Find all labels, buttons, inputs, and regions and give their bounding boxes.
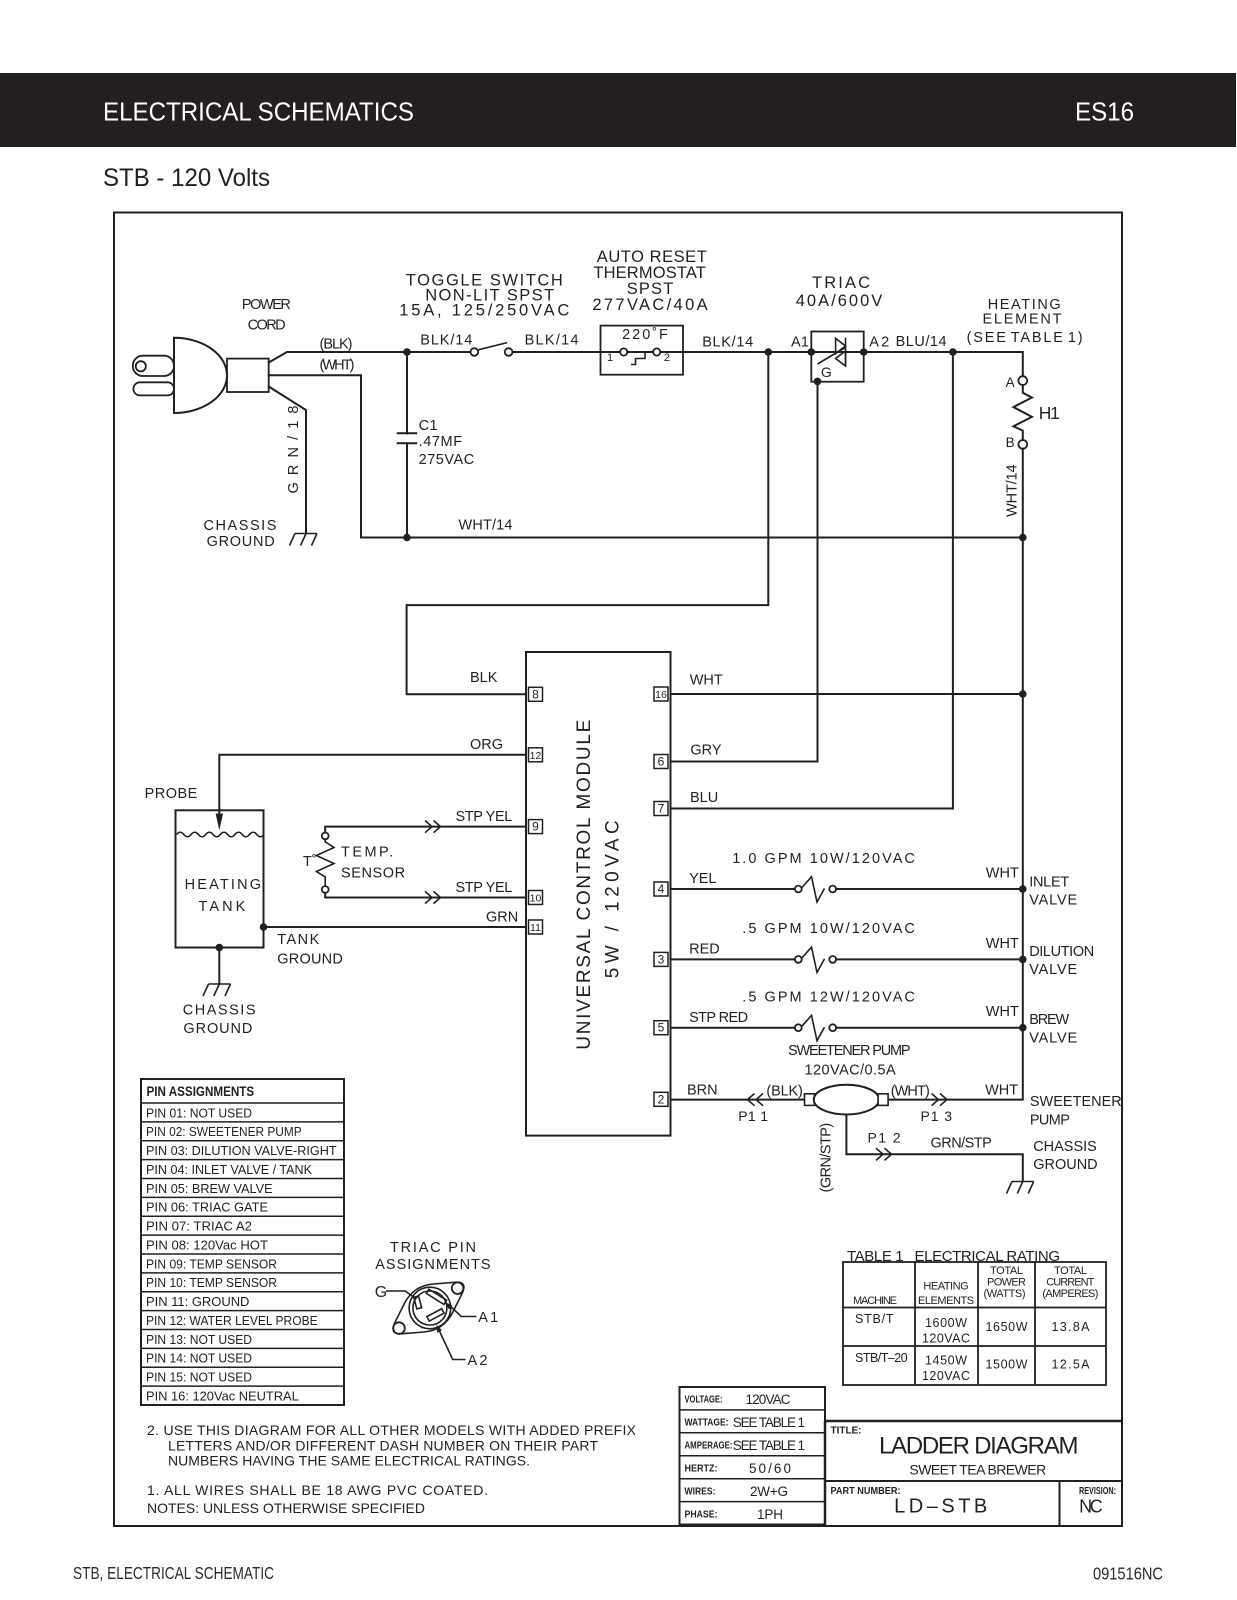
svg-text:2. USE THIS DIAGRAM FOR ALL OT: 2. USE THIS DIAGRAM FOR ALL OTHER MODELS… xyxy=(147,1422,637,1438)
capacitor C1 .47MF 275VAC xyxy=(398,352,475,538)
svg-text:GRN/STP: GRN/STP xyxy=(931,1136,992,1152)
svg-text:TRIAC: TRIAC xyxy=(812,274,870,292)
svg-text:1450W: 1450W xyxy=(925,1354,967,1368)
svg-text:PROBE: PROBE xyxy=(145,786,198,802)
wire BLK lead from plug xyxy=(269,352,471,363)
svg-text:ORG: ORG xyxy=(470,737,503,753)
svg-text:PIN 09: TEMP SENSOR: PIN 09: TEMP SENSOR xyxy=(146,1256,277,1271)
svg-text:A1: A1 xyxy=(791,334,809,350)
svg-text:WHT/14: WHT/14 xyxy=(1004,464,1020,516)
svg-text:ELECTRICAL SCHEMATICS: ELECTRICAL SCHEMATICS xyxy=(103,97,414,127)
svg-text:1500W: 1500W xyxy=(986,1357,1028,1371)
brew valve V3 row xyxy=(671,990,1078,1047)
svg-text:TOTAL: TOTAL xyxy=(990,1265,1023,1277)
auto reset thermostat TS1 xyxy=(592,248,707,375)
svg-text:P1 3: P1 3 xyxy=(921,1108,953,1124)
svg-text:(WATTS): (WATTS) xyxy=(984,1288,1026,1300)
svg-text:POWER: POWER xyxy=(987,1277,1026,1289)
sweetener pump M1 xyxy=(788,1043,911,1079)
node tank bottom junction xyxy=(216,944,224,952)
pin 2 (module right) xyxy=(654,1092,668,1106)
wire STP YEL sensor to pin 9 xyxy=(325,827,526,833)
svg-text:PART NUMBER:: PART NUMBER: xyxy=(831,1485,901,1497)
chassis ground (power cord) xyxy=(204,518,318,550)
svg-text:WHT: WHT xyxy=(690,673,723,689)
svg-text:9: 9 xyxy=(532,820,539,834)
svg-text:YEL: YEL xyxy=(689,871,716,887)
svg-text:1.0 GPM 10W/120VAC: 1.0 GPM 10W/120VAC xyxy=(732,851,915,867)
connector chevrons P1 2 xyxy=(876,1148,892,1160)
svg-text:PIN 02: SWEETENER PUMP: PIN 02: SWEETENER PUMP xyxy=(146,1124,302,1139)
svg-text:BREW: BREW xyxy=(1029,1012,1069,1028)
svg-text:HEATING: HEATING xyxy=(923,1281,968,1293)
svg-text:PIN 07: TRIAC A2: PIN 07: TRIAC A2 xyxy=(146,1219,252,1234)
svg-text:SWEETENER: SWEETENER xyxy=(1030,1094,1122,1110)
svg-text:TRIAC PIN: TRIAC PIN xyxy=(390,1240,476,1256)
svg-text:3: 3 xyxy=(658,952,665,966)
pin 4 (module right) xyxy=(654,882,668,896)
svg-text:SEE TABLE 1: SEE TABLE 1 xyxy=(733,1415,805,1430)
connector chevrons on pin 10 wire xyxy=(425,891,441,903)
wire WHT lead from plug xyxy=(269,375,361,537)
svg-text:PUMP: PUMP xyxy=(1030,1113,1070,1129)
pin 10 (module left) xyxy=(529,891,543,905)
svg-text:PIN 16: 120Vac NEUTRAL: PIN 16: 120Vac NEUTRAL xyxy=(146,1388,299,1403)
node A2 junction xyxy=(860,348,868,356)
schematic border frame xyxy=(114,213,1122,1527)
node junction WHT at C1 xyxy=(403,534,411,542)
svg-text:.47MF: .47MF xyxy=(419,434,463,450)
wire BLK thermostat to heating element corner xyxy=(660,352,1022,376)
op-amp/controller U1 universal control module xyxy=(526,652,671,1136)
svg-text:VALVE: VALVE xyxy=(1029,892,1077,908)
svg-text:(GRN/STP): (GRN/STP) xyxy=(819,1123,835,1193)
svg-text:(SEE TABLE 1): (SEE TABLE 1) xyxy=(967,330,1083,346)
svg-text:STP RED: STP RED xyxy=(689,1010,748,1026)
title block main xyxy=(825,1421,1122,1526)
svg-text:PIN 13: NOT USED: PIN 13: NOT USED xyxy=(146,1332,252,1347)
svg-text:PIN 10: TEMP SENSOR: PIN 10: TEMP SENSOR xyxy=(146,1275,277,1290)
svg-text:STB/T: STB/T xyxy=(855,1312,894,1326)
svg-text:WHT: WHT xyxy=(986,936,1019,952)
svg-text:091516NC: 091516NC xyxy=(1093,1564,1163,1584)
svg-text:2W+G: 2W+G xyxy=(750,1484,788,1499)
svg-text:G: G xyxy=(375,1284,387,1301)
svg-text:AMPERAGE:: AMPERAGE: xyxy=(685,1440,733,1452)
connector chevrons P1 3 xyxy=(932,1094,948,1106)
svg-text:LD–STB: LD–STB xyxy=(894,1495,987,1517)
svg-text:STB, ELECTRICAL SCHEMATIC: STB, ELECTRICAL SCHEMATIC xyxy=(73,1563,274,1583)
svg-text:PIN ASSIGNMENTS: PIN ASSIGNMENTS xyxy=(147,1084,255,1099)
svg-text:13.8A: 13.8A xyxy=(1052,1320,1091,1334)
wire BRN pin 2 to pump xyxy=(671,1099,805,1101)
svg-text:INLET: INLET xyxy=(1029,874,1069,890)
power cord plug P1 xyxy=(133,297,291,413)
svg-text:16: 16 xyxy=(655,689,667,701)
svg-text:GRN: GRN xyxy=(486,910,518,926)
pin 11 (module left) xyxy=(529,920,543,934)
svg-text:CORD: CORD xyxy=(248,318,286,334)
svg-text:A: A xyxy=(1006,375,1015,390)
svg-text:ASSIGNMENTS: ASSIGNMENTS xyxy=(375,1257,490,1273)
pin 6 (module right) xyxy=(654,755,668,769)
wire WHT/14 return rail xyxy=(361,537,1023,539)
svg-text:11: 11 xyxy=(530,922,541,934)
pin 16 (module right) xyxy=(654,687,668,701)
node junction WHT rail pin16 xyxy=(1019,690,1027,698)
svg-text:PIN 04: INLET VALVE / TANK: PIN 04: INLET VALVE / TANK xyxy=(146,1162,312,1177)
svg-text:277VAC/40A: 277VAC/40A xyxy=(592,296,707,314)
svg-text:VALVE: VALVE xyxy=(1029,1031,1077,1047)
svg-text:(WHT): (WHT) xyxy=(320,357,355,373)
svg-text:120VAC: 120VAC xyxy=(922,1369,970,1383)
wire tank to chassis ground xyxy=(218,948,220,985)
svg-text:PIN 06: TRIAC GATE: PIN 06: TRIAC GATE xyxy=(146,1200,268,1215)
svg-text:UNIVERSAL CONTROL MODULE: UNIVERSAL CONTROL MODULE xyxy=(574,720,595,1050)
svg-text:PIN 15: NOT USED: PIN 15: NOT USED xyxy=(146,1370,252,1385)
svg-text:120VAC: 120VAC xyxy=(922,1332,970,1346)
table 1 electrical rating xyxy=(843,1248,1106,1385)
svg-text:STP YEL: STP YEL xyxy=(456,809,513,825)
svg-text:1. ALL WIRES SHALL BE 18 AWG P: 1. ALL WIRES SHALL BE 18 AWG PVC COATED. xyxy=(147,1482,488,1498)
svg-text:5: 5 xyxy=(658,1021,665,1035)
svg-text:50/60: 50/60 xyxy=(749,1461,791,1476)
probe arrow into tank xyxy=(216,814,223,831)
chassis ground (tank) xyxy=(183,984,256,1037)
svg-text:SEE TABLE 1: SEE TABLE 1 xyxy=(733,1438,805,1453)
svg-text:POWER: POWER xyxy=(242,297,291,313)
svg-text:SWEET TEA BREWER: SWEET TEA BREWER xyxy=(909,1461,1046,1477)
svg-text:7: 7 xyxy=(658,802,665,816)
svg-text:(BLK): (BLK) xyxy=(320,337,353,353)
heating tank xyxy=(176,810,265,947)
svg-text:WATTAGE:: WATTAGE: xyxy=(685,1417,729,1429)
temp sensor T xyxy=(303,833,405,893)
node tank ground junction xyxy=(260,923,268,931)
svg-text:SENSOR: SENSOR xyxy=(341,866,405,882)
page header black bar xyxy=(0,73,1236,147)
svg-text:CURRENT: CURRENT xyxy=(1046,1277,1094,1289)
svg-text:(WHT): (WHT) xyxy=(891,1084,930,1100)
wire BLK drop to module pin 8 xyxy=(407,352,769,694)
svg-text:STP YEL: STP YEL xyxy=(456,880,513,896)
triac pin assignments diagram xyxy=(375,1240,499,1369)
svg-text:NC: NC xyxy=(1079,1496,1103,1516)
svg-text:REVISION:: REVISION: xyxy=(1079,1485,1116,1497)
notes text block xyxy=(147,1422,637,1516)
svg-text:C1: C1 xyxy=(419,418,438,434)
svg-text:2: 2 xyxy=(658,1092,665,1106)
svg-text:RED: RED xyxy=(689,942,720,958)
svg-text:LETTERS AND/OR DIFFERENT DASH: LETTERS AND/OR DIFFERENT DASH NUMBER ON … xyxy=(168,1437,598,1453)
svg-text:220˚F: 220˚F xyxy=(622,327,668,343)
svg-text:HERTZ:: HERTZ: xyxy=(685,1463,718,1475)
svg-text:1600W: 1600W xyxy=(925,1316,967,1330)
svg-text:GROUND: GROUND xyxy=(207,534,275,550)
svg-text:1650W: 1650W xyxy=(986,1320,1028,1334)
inlet valve V1 row xyxy=(671,851,1078,909)
svg-text:BRN: BRN xyxy=(687,1083,718,1099)
svg-text:PIN 08: 120Vac HOT: PIN 08: 120Vac HOT xyxy=(146,1237,268,1252)
svg-text:VOLTAGE:: VOLTAGE: xyxy=(685,1394,723,1406)
svg-text:TANK: TANK xyxy=(277,932,319,948)
pin 3 (module right) xyxy=(654,952,668,966)
svg-text:BLU: BLU xyxy=(690,790,718,806)
pin 8 (module left) xyxy=(529,687,543,701)
svg-text:BLK/14: BLK/14 xyxy=(420,333,472,349)
title block spec table xyxy=(680,1387,826,1525)
svg-text:BLK/14: BLK/14 xyxy=(525,333,579,349)
svg-text:BLU/14: BLU/14 xyxy=(896,334,947,350)
svg-text:NOTES: UNLESS OTHERWISE SPECIF: NOTES: UNLESS OTHERWISE SPECIFIED xyxy=(147,1500,425,1516)
connector chevrons on pin 9 wire xyxy=(425,821,441,833)
wire GRN lead from plug xyxy=(269,387,306,534)
svg-text:B: B xyxy=(1006,435,1015,450)
svg-text:GRY: GRY xyxy=(690,743,721,759)
svg-text:H1: H1 xyxy=(1039,403,1060,423)
svg-text:WHT: WHT xyxy=(986,1004,1019,1020)
triac Q1 40A/600V xyxy=(796,274,883,382)
svg-text:P1 2: P1 2 xyxy=(868,1130,901,1146)
svg-text:PIN 05: BREW VALVE: PIN 05: BREW VALVE xyxy=(146,1181,273,1196)
svg-text:120VAC: 120VAC xyxy=(746,1392,791,1407)
wire H1 B terminal down the right rail to sweetener pump xyxy=(888,449,1023,1100)
pin 9 (module left) xyxy=(529,820,543,834)
svg-text:PIN 12: WATER LEVEL PROBE: PIN 12: WATER LEVEL PROBE xyxy=(146,1313,318,1328)
pump body xyxy=(805,1085,889,1115)
svg-text:4: 4 xyxy=(658,882,665,896)
svg-text:NUMBERS HAVING THE SAME ELECTR: NUMBERS HAVING THE SAME ELECTRICAL RATIN… xyxy=(168,1453,530,1469)
svg-text:WHT/14: WHT/14 xyxy=(459,518,513,534)
dilution valve V2 row xyxy=(671,921,1095,978)
svg-text:TOTAL: TOTAL xyxy=(1054,1265,1087,1277)
svg-text:WHT: WHT xyxy=(986,865,1019,881)
svg-text:BLK/14: BLK/14 xyxy=(702,334,753,350)
heating element H1 xyxy=(967,297,1083,450)
svg-text:PIN 14: NOT USED: PIN 14: NOT USED xyxy=(146,1351,252,1366)
wire BLK switch to thermostat xyxy=(513,351,621,353)
svg-text:120VAC/0.5A: 120VAC/0.5A xyxy=(805,1063,897,1079)
svg-text:STB - 120 Volts: STB - 120 Volts xyxy=(103,164,270,192)
pin 12 (module left) xyxy=(529,748,543,762)
svg-text:DILUTION: DILUTION xyxy=(1029,944,1094,960)
wire GRN tank to pin 11 xyxy=(264,926,527,928)
svg-text:WIRES:: WIRES: xyxy=(685,1485,716,1497)
svg-text:(AMPERES): (AMPERES) xyxy=(1042,1288,1098,1300)
svg-text:STB/T–20: STB/T–20 xyxy=(855,1351,908,1365)
node junction BLU riser xyxy=(949,348,957,356)
toggle switch S1 xyxy=(399,272,569,356)
svg-text:275VAC: 275VAC xyxy=(419,452,475,468)
svg-text:1: 1 xyxy=(607,352,613,364)
svg-text:LADDER DIAGRAM: LADDER DIAGRAM xyxy=(879,1433,1078,1460)
chassis ground (sweetener) xyxy=(1007,1139,1098,1194)
svg-text:PIN 01: NOT USED: PIN 01: NOT USED xyxy=(146,1105,252,1120)
pin assignments table xyxy=(141,1079,344,1405)
connector chevrons P1 1 xyxy=(748,1094,764,1106)
pin 5 (module right) xyxy=(654,1021,668,1035)
wire GRN/STP pump to chassis ground xyxy=(846,1115,1022,1182)
svg-text:1PH: 1PH xyxy=(757,1507,783,1522)
svg-text:PHASE:: PHASE: xyxy=(685,1508,718,1520)
wire STP YEL sensor to pin 10 xyxy=(325,893,526,898)
svg-text:12: 12 xyxy=(530,750,542,762)
svg-text:10: 10 xyxy=(530,893,542,905)
wire BLU pin 7 to A2 node xyxy=(671,352,953,809)
svg-text:(BLK): (BLK) xyxy=(766,1084,803,1100)
svg-text:BLK: BLK xyxy=(470,670,498,686)
svg-text:VALVE: VALVE xyxy=(1029,962,1077,978)
svg-text:PIN 11: GROUND: PIN 11: GROUND xyxy=(146,1294,249,1309)
svg-text:2: 2 xyxy=(664,352,670,364)
svg-text:MACHINE: MACHINE xyxy=(853,1295,897,1307)
svg-text:SWEETENER PUMP: SWEETENER PUMP xyxy=(788,1043,911,1059)
svg-text:GROUND: GROUND xyxy=(277,952,343,968)
node gate junction at triac box bottom xyxy=(814,378,822,386)
svg-text:T˚: T˚ xyxy=(303,854,317,870)
svg-text:TITLE:: TITLE: xyxy=(831,1425,862,1437)
svg-text:WHT: WHT xyxy=(985,1083,1018,1099)
svg-text:GROUND: GROUND xyxy=(183,1021,252,1037)
svg-text:CHASSIS: CHASSIS xyxy=(1033,1139,1097,1155)
svg-text:ELEMENT: ELEMENT xyxy=(983,311,1062,327)
wire WHT pin 16 to rail xyxy=(671,693,1023,695)
wire ORG pin 12 to probe xyxy=(219,755,526,814)
node A1 junction xyxy=(808,348,816,356)
svg-text:6: 6 xyxy=(658,755,665,769)
node junction WHT rail at H1 xyxy=(1019,534,1027,542)
svg-text:ELEMENTS: ELEMENTS xyxy=(918,1295,974,1307)
node junction BLK at C1 xyxy=(403,348,411,356)
svg-text:ES16: ES16 xyxy=(1075,97,1134,127)
svg-text:TANK: TANK xyxy=(198,899,245,915)
node junction to control module pin 8 riser xyxy=(765,348,773,356)
svg-text:TEMP.: TEMP. xyxy=(341,845,393,861)
pin 7 (module right) xyxy=(654,802,668,816)
svg-text:G: G xyxy=(821,364,832,380)
svg-text:12.5A: 12.5A xyxy=(1052,1357,1091,1371)
svg-text:15A, 125/250VAC: 15A, 125/250VAC xyxy=(399,302,569,320)
svg-text:P1 1: P1 1 xyxy=(738,1108,768,1124)
svg-text:8: 8 xyxy=(532,687,539,701)
wire GRY pin 6 to triac gate xyxy=(671,381,818,761)
svg-text:GROUND: GROUND xyxy=(1033,1157,1097,1173)
svg-text:PIN 03: DILUTION VALVE-RIGHT: PIN 03: DILUTION VALVE-RIGHT xyxy=(146,1143,337,1158)
